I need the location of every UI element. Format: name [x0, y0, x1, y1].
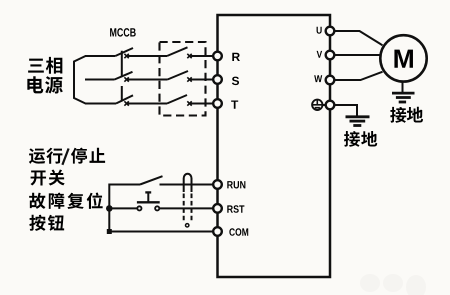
MCCB mechanical linkage [121, 51, 123, 101]
label R [232, 53, 240, 61]
label T [231, 100, 238, 108]
wire: W to motor [334, 72, 382, 80]
contactor pole 1 (blade + contact X) [167, 47, 192, 58]
control bus wire (left vertical) [109, 185, 140, 232]
wire: PE terminal to ground [334, 105, 357, 116]
run/stop switch S1 (knife contact) [140, 176, 163, 184]
ground symbol (drive PE) [346, 117, 370, 126]
wire: switch S1 to terminal RUN [160, 184, 214, 186]
wire: contactor pole 2 to terminal S [190, 79, 213, 81]
breaker MCCB pole 2 (blade + contact X) [115, 72, 133, 82]
terminal RST [213, 204, 222, 213]
terminal T [213, 99, 222, 108]
junction node at bus bottom corner [107, 229, 112, 234]
label: ground 接地 (drive) [344, 131, 377, 147]
wire: phase L2 from source to MCCB pole 2 [85, 79, 115, 81]
wire: phase L3 from source to MCCB pole 3 [85, 103, 116, 105]
terminal V [326, 51, 335, 60]
terminal RUN [213, 180, 222, 189]
label: three-phase power 三相电源 [27, 57, 62, 94]
three-phase source bracket [74, 56, 86, 104]
wire: U to motor [334, 31, 382, 45]
label: run/stop 运行/停止 [29, 148, 105, 165]
ground symbol (motor) [392, 93, 415, 102]
terminal U [326, 27, 335, 36]
wire: MCCB pole 3 to contactor pole 3 [127, 103, 167, 105]
inverter box U1 [218, 15, 331, 277]
terminal W [326, 76, 335, 85]
label W [314, 75, 322, 82]
terminal PE [326, 101, 335, 110]
motor M1 [380, 35, 426, 81]
contactor pole 2 (blade + contact X) [168, 71, 192, 82]
label V [317, 51, 323, 58]
wire: V to motor [334, 54, 380, 56]
wire: phase L1 from source to MCCB pole 1 [85, 55, 115, 57]
breaker MCCB pole 1 (blade + contact X) [115, 48, 133, 58]
label: switch 开关 [31, 170, 65, 186]
wire: bus to terminal COM [109, 231, 213, 233]
terminal R [213, 52, 222, 61]
protective-earth symbol (circled ground) [312, 100, 322, 110]
wire: PE symbol to PE terminal [323, 104, 326, 106]
junction node on bus at RST branch [106, 205, 113, 212]
wire: contactor pole 3 to terminal T [190, 103, 213, 105]
wire: reset button to terminal RST [159, 207, 213, 209]
terminal S [213, 75, 222, 84]
terminal COM [213, 227, 222, 236]
wire: bus to reset button [109, 207, 137, 209]
contactor pole 3 (blade + contact X) [167, 95, 192, 106]
label U [317, 27, 322, 34]
label RST [227, 205, 233, 212]
shielded-cable loop around control wires [184, 174, 192, 223]
contactor KM enclosure (dashed) [160, 42, 206, 116]
breaker MCCB pole 3 (blade + contact X) [116, 95, 133, 105]
label: fault reset 故障复位 [29, 192, 103, 208]
shield drain marker [186, 224, 189, 227]
label MCCB [110, 28, 116, 36]
wire: contactor pole 1 to terminal R [190, 55, 213, 57]
label COM [229, 228, 235, 236]
label RUN [227, 181, 233, 188]
label S [232, 77, 239, 85]
reset push button SB1 (N.O.) [137, 192, 160, 210]
wire: MCCB pole 1 to contactor pole 1 [127, 55, 167, 57]
label: push button 按钮 [29, 215, 64, 231]
wire: MCCB pole 2 to contactor pole 2 [127, 79, 167, 81]
watermark remnant [360, 274, 426, 295]
wire: motor frame to ground [402, 82, 404, 92]
label: ground 接地 (motor) [390, 107, 423, 123]
